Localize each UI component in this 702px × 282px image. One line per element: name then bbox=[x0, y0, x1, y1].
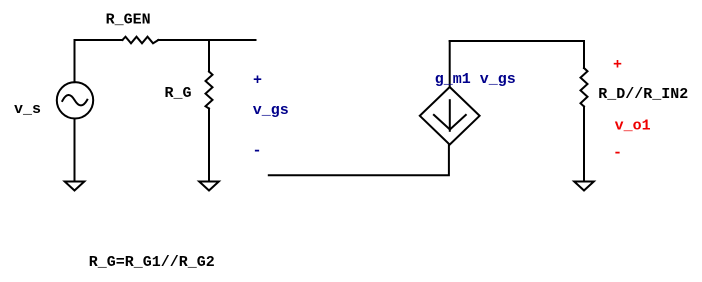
svg-text:R_G: R_G bbox=[165, 85, 192, 102]
ground (v_s) bbox=[65, 182, 85, 191]
svg-text:-: - bbox=[253, 143, 262, 160]
svg-text:v_gs: v_gs bbox=[253, 102, 289, 119]
wire down to R_D//R_IN2 bbox=[583, 41, 585, 68]
dependent current source G1 diamond bbox=[420, 87, 480, 145]
ground (R_G) bbox=[199, 182, 219, 191]
svg-text:R_GEN: R_GEN bbox=[106, 12, 151, 29]
wire top-right horizontal bbox=[450, 40, 584, 42]
svg-text:+: + bbox=[613, 57, 622, 74]
ground (output) bbox=[574, 182, 594, 191]
wire from R_GEN to node over R_G bbox=[158, 39, 255, 41]
voltage source v_s circle bbox=[57, 82, 93, 118]
svg-text:g_m1 v_gs: g_m1 v_gs bbox=[435, 71, 516, 88]
wire v_gs reference bottom bbox=[269, 145, 449, 176]
resistor R_D//R_IN2 bbox=[581, 68, 588, 107]
svg-text:+: + bbox=[253, 72, 262, 89]
arrow of current source bbox=[449, 100, 451, 131]
resistor R_G bbox=[206, 72, 213, 109]
svg-text:R_G=R_G1//R_G2: R_G=R_G1//R_G2 bbox=[89, 254, 215, 271]
resistor R_GEN bbox=[122, 37, 158, 44]
svg-text:v_o1: v_o1 bbox=[615, 118, 651, 135]
wire R_G to ground bbox=[208, 109, 210, 182]
svg-text:-: - bbox=[613, 145, 622, 162]
wire R_D to ground bbox=[583, 107, 585, 182]
wire source bottom to ground bbox=[74, 119, 76, 182]
wire node down to R_G bbox=[208, 40, 210, 72]
sine symbol bbox=[62, 95, 87, 105]
wire diamond top vertical bbox=[449, 41, 451, 87]
wire top-left from source top to R_GEN bbox=[75, 39, 123, 41]
svg-text:v_s: v_s bbox=[14, 101, 41, 118]
svg-text:R_D//R_IN2: R_D//R_IN2 bbox=[598, 86, 688, 103]
wire source top vertical bbox=[74, 40, 76, 82]
